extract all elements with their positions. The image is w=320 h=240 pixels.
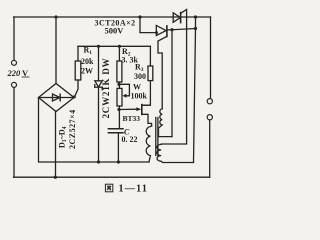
svg-text:0. 22: 0. 22 <box>122 135 138 144</box>
svg-text:2CW21K DW: 2CW21K DW <box>101 58 111 119</box>
svg-text:1—11: 1—11 <box>119 184 149 195</box>
svg-text:220: 220 <box>7 68 22 78</box>
svg-text:BT33: BT33 <box>123 114 141 123</box>
svg-text:2CZ527×4: 2CZ527×4 <box>68 109 77 149</box>
svg-text:D1~D4: D1~D4 <box>58 126 69 148</box>
svg-text:100k: 100k <box>131 92 148 101</box>
svg-text:W: W <box>133 83 141 92</box>
svg-text:R1: R1 <box>84 46 93 57</box>
svg-text:V: V <box>22 68 29 78</box>
svg-text:20k: 20k <box>81 57 94 66</box>
svg-text:2W: 2W <box>81 67 93 76</box>
svg-text:300: 300 <box>134 72 146 81</box>
svg-text:500V: 500V <box>105 26 125 36</box>
